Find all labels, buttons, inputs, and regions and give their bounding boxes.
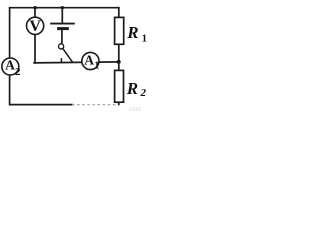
svg-text:2: 2	[15, 66, 21, 78]
svg-text:A: A	[5, 57, 15, 72]
svg-text:A: A	[84, 52, 94, 67]
svg-text:2: 2	[140, 87, 147, 99]
svg-text:V: V	[29, 18, 41, 35]
svg-text:R: R	[126, 79, 138, 98]
svg-text:1: 1	[142, 33, 147, 44]
svg-text:1: 1	[94, 60, 99, 71]
svg-text:com: com	[129, 105, 142, 113]
svg-text:R: R	[126, 23, 138, 42]
